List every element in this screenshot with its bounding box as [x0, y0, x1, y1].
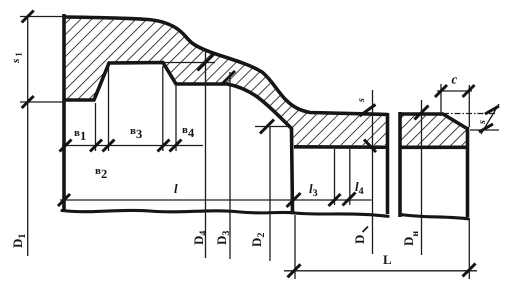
svg-text:l: l: [174, 181, 178, 196]
svg-text:s: s: [356, 98, 367, 103]
svg-text:D: D: [352, 235, 367, 244]
svg-text:L: L: [383, 252, 392, 267]
svg-text:c: c: [452, 72, 458, 87]
svg-text:s: s: [477, 120, 488, 125]
